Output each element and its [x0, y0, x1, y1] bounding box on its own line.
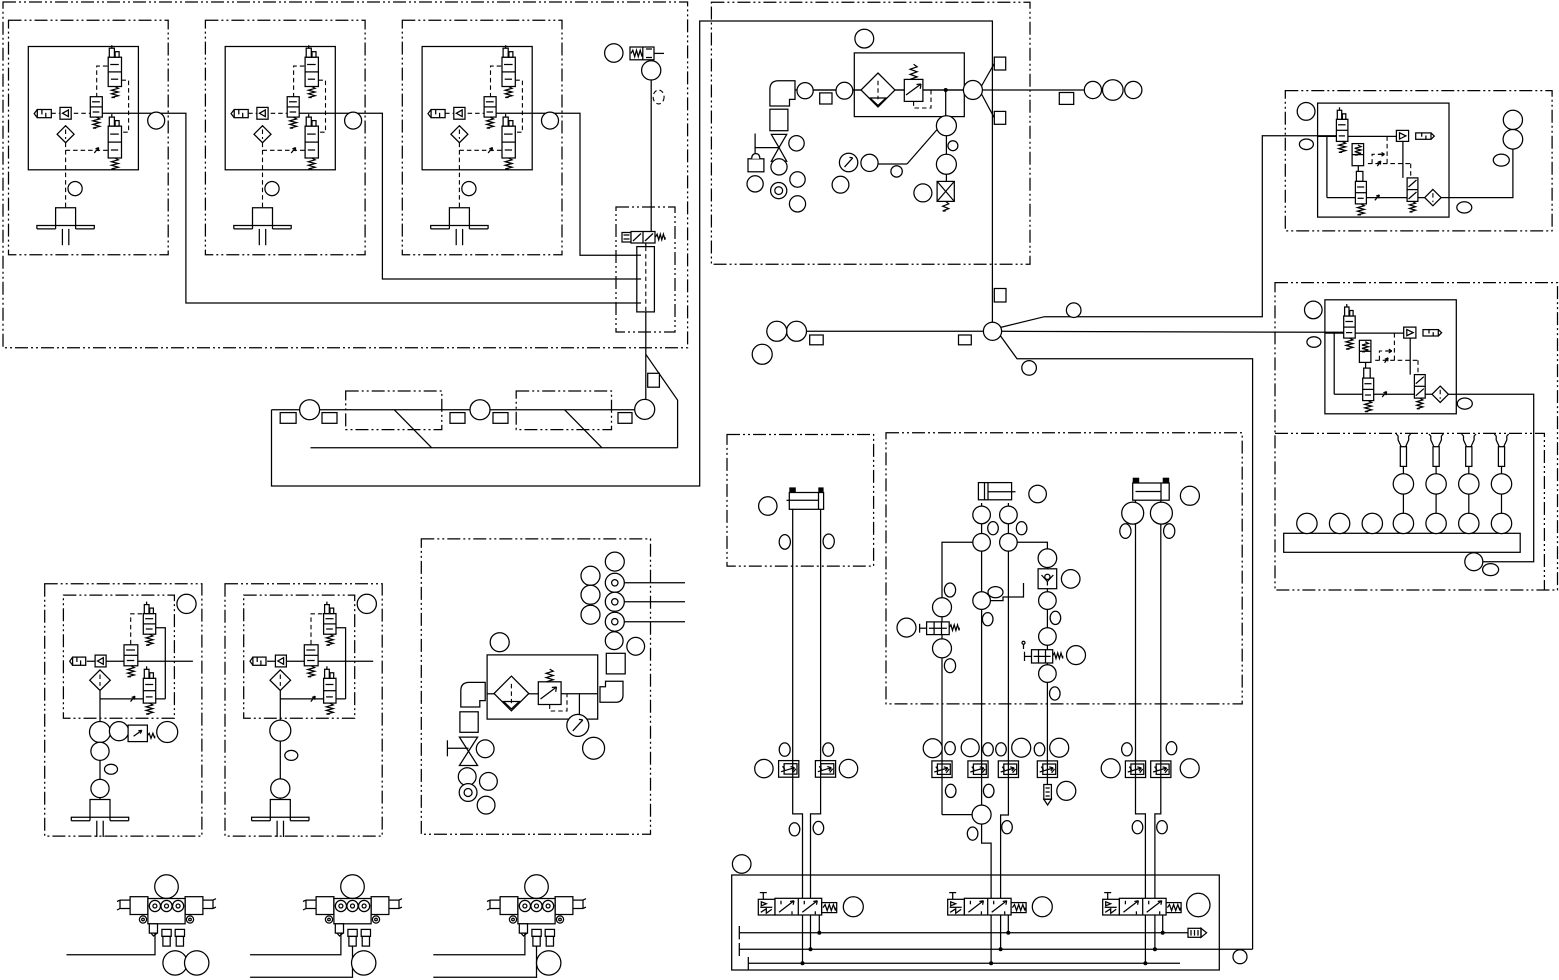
bus muffler — [1188, 928, 1201, 937]
pressure gauge — [877, 163, 907, 165]
fitting square 2 — [322, 413, 337, 424]
valve 2 (5/2) — [948, 899, 965, 915]
wire: FRL split to lower coupling — [982, 94, 995, 118]
bus line 1 — [739, 932, 1188, 934]
spare port circles — [789, 136, 804, 151]
wire: check chain down to flow control 4 — [1046, 558, 1048, 784]
drain chain — [936, 116, 956, 136]
wire: branch diagonal to collector — [646, 354, 678, 448]
joint circle 1 — [300, 400, 320, 420]
boundary: right-top module enclosure — [1285, 91, 1552, 231]
wire: hose 2 diagonal drop — [565, 410, 603, 448]
filter 2 — [494, 676, 529, 711]
fitting square 3 — [450, 413, 465, 424]
outlet circles — [605, 632, 623, 650]
wire: manifold unit 3 drops — [433, 933, 525, 955]
outlet coupling circles — [1084, 81, 1101, 98]
wire: air supply main line through FRL — [800, 89, 963, 91]
wire: supply2 port lines — [624, 582, 685, 584]
junction left fittings — [959, 335, 972, 345]
bottom directional valve manifold — [732, 855, 1253, 970]
vacuum ejector module 3 — [402, 20, 562, 255]
circle above FRL — [855, 29, 874, 48]
bus line 2 — [739, 948, 1252, 950]
wire: ejector module 2 output to vacuum block port 2 — [335, 113, 636, 279]
manifold bar — [1402, 494, 1404, 513]
flexible hose 1 — [346, 391, 442, 430]
main junction — [752, 289, 1081, 376]
vacuum ejector module 5 — [225, 584, 382, 837]
hand shut-off valve — [771, 134, 786, 147]
boundary: supply unit 2 enclosure — [421, 539, 650, 834]
wire: collector line under hoses — [311, 447, 678, 449]
air supply FRL unit — [747, 29, 1142, 212]
wire: fc1 to collector circle — [942, 814, 972, 816]
wire: relief valve down through pilot valve and block — [650, 80, 652, 232]
left regulator chain — [897, 583, 959, 673]
small circles on branch lines — [1066, 303, 1081, 318]
boundary: right-middle module enclosure — [1275, 283, 1558, 590]
flow control valves middle group — [923, 738, 1076, 840]
boundary: right manifold sub-enclosure — [1275, 433, 1544, 590]
fitting square 4 — [493, 413, 508, 424]
bottom right circle — [1233, 950, 1247, 964]
vacuum ejector module 4 — [45, 584, 202, 837]
valve 3 (5/2) — [1103, 899, 1120, 915]
right module 1 port circles — [1297, 103, 1523, 213]
boundary: top-left vacuum station enclosure — [3, 2, 688, 348]
wire: ejector module 1 output to vacuum block port 3 — [138, 113, 636, 303]
FRL box 2 — [487, 655, 598, 719]
wire: suction line return loop to air supply — [272, 21, 993, 486]
wire: left cylinder lines through flow controls to valve 1 — [793, 509, 803, 898]
outlet elbow 2 — [600, 681, 623, 702]
regulator — [904, 79, 923, 101]
block outlet fitting — [648, 373, 660, 387]
right control module 1 — [1318, 103, 1449, 217]
circles — [490, 633, 509, 652]
joint circle 2 — [470, 400, 490, 420]
wire: junction left branch — [807, 330, 984, 332]
FRL box — [854, 53, 964, 117]
wire: fc3 down to valve 2 — [1001, 503, 1009, 898]
bus line 3 — [748, 962, 1180, 964]
solenoid manifold unit 2 — [303, 875, 402, 975]
wire: right-middle module outlet to pad manifold — [1456, 394, 1533, 561]
hand valve 2 — [459, 737, 477, 751]
solenoid manifold unit 3 — [487, 875, 586, 975]
boundary: left slide cylinder enclosure — [727, 435, 874, 567]
boundary: top-center air supply enclosure — [711, 2, 1030, 264]
inlet elbow — [770, 81, 795, 106]
wire: mid branch to regulator chain left — [942, 542, 973, 814]
right check chain — [1022, 549, 1086, 700]
inlet circle pair — [836, 82, 853, 99]
wire: ejector module 3 output to vacuum block port 1 — [533, 113, 637, 255]
right control module 2 — [1325, 300, 1456, 414]
wire: main suction line — [272, 409, 636, 411]
wire: junction to right-top module — [1000, 136, 1336, 328]
solenoid pilot valve — [622, 233, 631, 243]
flexible hose 2 — [516, 391, 611, 430]
middle cylinder — [978, 483, 1046, 503]
gauge circle low — [567, 714, 589, 736]
wire: mid branch right to check chain — [1017, 542, 1047, 549]
vacuum ejector module 2 — [205, 20, 365, 255]
collector circle — [972, 805, 991, 824]
boundary: middle cylinders enclosure — [886, 433, 1242, 704]
suction hose assembly — [280, 391, 655, 430]
flow control valves right pair — [1101, 742, 1199, 834]
wire: collector circle down to valve 2 — [982, 824, 992, 898]
fitting square 1 — [280, 413, 296, 424]
supply unit 2 (blow-off) — [447, 552, 644, 814]
vacuum block — [637, 247, 655, 312]
middle cylinder port circles — [973, 506, 1027, 626]
wire: manifold unit 1 drop — [67, 933, 156, 955]
regulator 2 — [538, 682, 561, 705]
flow control valves left pair — [755, 743, 858, 836]
wire: manifold unit 2 drops — [250, 933, 341, 955]
vacuum ejector module 1 — [9, 20, 169, 255]
wire: right-top module outlet riser — [1449, 149, 1513, 198]
distribution circle — [963, 81, 982, 100]
exhaust restrictor — [1044, 785, 1052, 800]
joint circle 3 — [635, 399, 655, 419]
wire: FRL to distribution circle — [962, 89, 965, 91]
wire: junction to right-middle module — [1002, 331, 1344, 332]
coupling squares — [994, 57, 1005, 70]
solenoid manifold unit 1 — [117, 875, 216, 975]
wire: junction to bottom manifold bus — [1000, 336, 1252, 950]
right cylinder — [1120, 478, 1200, 539]
filter — [861, 73, 895, 107]
fitting square 5 — [618, 413, 632, 424]
left slide cylinder — [759, 487, 835, 549]
wire: middle cylinder left port chain — [981, 503, 983, 805]
wire: FRL split to upper coupling — [982, 64, 995, 87]
pilot valve and vacuum distribution block — [616, 207, 675, 387]
right module 2 port circles — [1305, 301, 1473, 409]
wire: right cylinder lines through flow controls to valve 3 — [1136, 500, 1146, 898]
wire: hose 1 diagonal drop — [394, 410, 432, 448]
manifold feed circle — [1465, 553, 1483, 571]
vacuum pad manifold — [1284, 434, 1521, 575]
inlet elbow 2 — [461, 682, 485, 707]
relief valve — [605, 44, 665, 104]
valve 1 (5/2) — [758, 899, 775, 915]
